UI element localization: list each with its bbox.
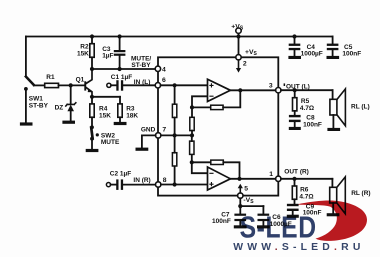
node: rail/+Vs [236,34,240,38]
ground (C6) [257,225,270,228]
wire: pin 8 to amp B + input [161,184,208,186]
svg-text:WWW.S-LED.RU: WWW.S-LED.RU [233,242,364,253]
ground (R3) [114,122,127,125]
svg-text:RL (L): RL (L) [351,104,370,111]
capacitor C6 [258,206,270,225]
node: mute line/C3 [118,67,122,71]
svg-text:IN (R): IN (R) [133,177,150,184]
svg-text:GND: GND [141,127,156,134]
capacitor C2 [111,179,124,190]
wire: -Vs rail [240,205,263,207]
svg-text:100nF: 100nF [342,51,361,58]
node: GND/+ net [173,133,177,137]
capacitor C9 [287,204,299,215]
wire: pin 1 to speaker R [281,178,332,180]
svg-text:RL (R): RL (R) [351,190,370,197]
switch SW1 ground contact [24,87,28,91]
node: OUT R / R6 [292,177,296,181]
watermark red swoosh [297,201,368,241]
ground (C7) [234,225,247,228]
speaker RL (L) [330,89,346,128]
node: + input divider (bottom) [173,182,177,186]
ground (SW1) [20,122,33,125]
transistor Q1 [84,69,92,97]
pin 2 [236,55,241,60]
watermark S-LED logo [233,201,367,254]
ground (C5) [327,56,340,59]
capacitor C5 [327,37,339,56]
wire: R1 to node [59,84,85,86]
pin 6 [155,83,160,88]
internal resistor top - net [190,107,194,135]
pin 4 [155,66,160,71]
ground (C8) [289,127,301,130]
pin 3 [276,88,281,93]
node: OUT L / R5 [293,88,297,92]
svg-text:ST-BY: ST-BY [131,62,151,69]
pin 5 arrow [238,184,243,193]
ground (speaker L) [327,128,340,131]
label OUT (L) [284,83,286,86]
svg-text:R1: R1 [46,74,55,81]
capacitor C8 [289,115,301,127]
wire: C2 to pin 8 [123,184,155,186]
resistor R2 [90,37,94,70]
svg-text:R5: R5 [301,98,310,105]
pin 1 [276,176,281,181]
wire: C1 to pin 6 [123,84,155,86]
wire: amp B output to pin 1 [230,178,275,180]
svg-text:C8: C8 [306,114,315,121]
node: R2/Q1 collector/mute line [90,67,94,71]
resistor R6 [292,179,296,204]
resistor R4 [90,97,94,128]
pin 7 [156,133,161,138]
internal resistor bottom - net [190,135,194,162]
wire: internal GND line [161,134,192,136]
node: + input divider (top) [173,83,177,87]
internal feedback resistor (bottom) [192,160,240,179]
svg-text:ST-BY: ST-BY [29,102,49,109]
svg-text:15K: 15K [77,51,89,58]
pin 8 [156,182,161,187]
wire: SW1 contact to ground [25,89,27,123]
svg-text:+VS: +VS [231,23,244,31]
svg-text:7: 7 [162,127,166,134]
resistor R1 [45,83,59,87]
pin 5 [238,193,243,198]
svg-text:OUT (L): OUT (L) [286,83,310,90]
svg-text:C1 1µF: C1 1µF [111,74,132,81]
ground (C4) [288,56,301,59]
wire: pin 6 to amp A + input [161,84,208,86]
node: rail/R2 [90,34,94,38]
wire: amp A - input [192,96,208,107]
switch SW2 [90,125,94,148]
node: - net (top) [190,105,194,109]
svg-text:Q1: Q1 [76,77,85,84]
svg-text:-VS: -VS [243,197,254,205]
svg-text:OUT (R): OUT (R) [284,169,309,176]
svg-text:IN (L): IN (L) [134,79,151,86]
wire: amp A output to pin 3 [230,89,275,91]
wire: rail to pin 2 [238,37,240,55]
wire: mute line to pin 4 [92,68,155,70]
svg-text:15K: 15K [99,113,111,120]
label SW2 MUTE [96,133,99,136]
svg-text:DZ: DZ [55,104,64,111]
ground (C9) [287,215,299,218]
svg-text:18K: 18K [126,113,138,120]
node: GND/- net [190,133,194,137]
wire: emitter to R3 [92,96,120,98]
svg-text:C2 1µF: C2 1µF [110,171,131,178]
ground (speaker R) [327,213,340,216]
capacitor C1 [111,80,123,91]
wire: GND pin 7 to ground [142,135,156,147]
resistor R5 [293,90,297,115]
svg-text:3: 3 [269,83,273,90]
internal feedback resistor (top) [192,90,240,109]
ground (GND pin) [136,148,149,151]
svg-text:R3: R3 [126,105,135,112]
wire: pin 5 to -Vs node [239,198,241,206]
ground (SW2) [86,149,99,152]
wire: amp B - input [192,162,208,173]
capacitor C7 [234,206,246,225]
svg-text:1: 1 [269,171,273,178]
internal resistor top + net [172,85,176,135]
wire: SW1 to R1 [34,84,45,86]
svg-text:R6: R6 [300,186,309,193]
zener diode DZ [66,103,76,121]
pin 2 arrow [236,60,241,73]
resistor R3 [118,97,122,122]
svg-text:100nF: 100nF [303,121,322,128]
svg-text:8: 8 [163,177,167,184]
node: -Vs [238,204,242,208]
svg-text:MUTE: MUTE [101,139,120,146]
svg-text:6: 6 [162,77,166,84]
svg-text:R4: R4 [99,105,108,112]
wire: rail drop to SW1 [25,37,27,77]
wire: +Vs terminal to rail [238,33,240,36]
capacitor C3 [114,37,126,70]
svg-text:4: 4 [162,67,166,74]
op-amp B (right channel) [208,167,231,190]
wire: pin 3 to speaker L [281,89,333,91]
switch SW1 lever [26,77,34,85]
svg-text:5: 5 [244,185,248,192]
capacitor C2 input terminal [106,183,110,187]
node: rail/C3 [118,34,122,38]
node: amp B output / feedback [237,177,241,181]
wire: node to DZ [70,85,72,104]
capacitor C4 [289,37,301,56]
svg-text:2: 2 [243,61,247,68]
op-amp A (left channel) [208,79,231,101]
ground (DZ) [62,121,75,124]
capacitor C1 input terminal [107,83,111,87]
svg-text:+VS: +VS [245,49,258,57]
wire: +Vs top rail [26,36,333,38]
svg-text:1µF: 1µF [102,53,113,60]
node: amp A output / feedback [238,88,242,92]
internal resistor bottom + net [172,135,176,184]
node: - net (bottom) [190,160,194,164]
svg-text:S-LED: S-LED [240,210,317,244]
op-amp IC box U1 [158,57,278,195]
svg-text:1000µF: 1000µF [301,51,323,58]
node: Q1 emitter [90,95,94,99]
svg-text:4.7Ω: 4.7Ω [299,194,313,201]
svg-text:R2: R2 [80,43,89,50]
speaker RL (R) [330,177,346,214]
node: base junction [69,83,73,87]
terminal +Vs [236,28,241,33]
node: rail/C4 [292,34,296,38]
svg-text:4.7Ω: 4.7Ω [300,105,314,112]
svg-text:100nF: 100nF [212,218,231,225]
